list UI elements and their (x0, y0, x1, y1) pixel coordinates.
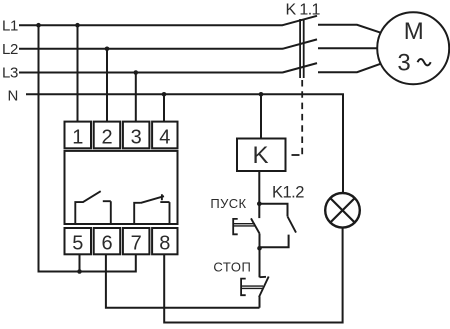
svg-text:6: 6 (101, 232, 112, 254)
coil K bottom wire (258, 171, 260, 218)
rail L3 (19, 72, 283, 74)
contact K1.2 branch (259, 204, 287, 217)
node N coil feed (259, 92, 264, 97)
wire L1 to left drop and terminals 5,7 (39, 25, 136, 271)
node L1 drop (36, 23, 41, 28)
terminal 3 (123, 122, 149, 149)
relay body (65, 151, 178, 224)
svg-text:2: 2 (101, 126, 112, 148)
wire terminal 5 (79, 255, 81, 272)
svg-text:1: 1 (72, 126, 83, 148)
rail L1 (19, 24, 283, 26)
rail L2 (19, 48, 283, 50)
contact K1.2 blade (288, 216, 297, 232)
svg-text:5: 5 (72, 232, 83, 254)
svg-text:8: 8 (159, 232, 170, 254)
terminal 8 (152, 228, 177, 254)
relay contact 5-6 (75, 191, 111, 224)
svg-text:M: M (404, 18, 424, 45)
wire N to terminal 4 (163, 94, 165, 122)
svg-text:N: N (8, 88, 19, 105)
svg-text:L2: L2 (2, 41, 18, 58)
start button SB1 cap (233, 219, 238, 234)
svg-text:3: 3 (397, 50, 410, 77)
svg-text:ПУСК: ПУСК (210, 196, 246, 211)
contactor contact K1.1 pole 1 (283, 16, 318, 25)
terminal 5 (65, 228, 92, 254)
wire L1 to terminal 1 (77, 25, 79, 122)
terminal 4 (152, 122, 177, 149)
terminal 1 (65, 122, 92, 149)
contact K1.2 lower wire (260, 235, 289, 248)
coil K box (237, 139, 286, 172)
node L3 terminal 3 (134, 70, 139, 75)
svg-text:3: 3 (131, 126, 142, 148)
K1.1 linkage bar (299, 19, 301, 78)
stop button SB2 fixed tick (260, 276, 267, 278)
svg-text:4: 4 (159, 126, 170, 148)
coil K feed wire from N (260, 94, 262, 138)
wire L2 to terminal 2 (106, 49, 108, 122)
wire terminal 8 to lamp (164, 228, 342, 323)
start button SB1 wire to node (259, 234, 261, 248)
start button SB1 blade (251, 218, 260, 234)
motor tilde (418, 59, 431, 65)
terminal 6 (94, 228, 121, 254)
svg-text:L3: L3 (2, 65, 18, 82)
terminal 7 (123, 228, 149, 254)
motor M circle (377, 12, 449, 84)
wire terminal 6 to STOP button (106, 255, 260, 308)
node N terminal 4 (162, 92, 167, 97)
start button SB1 rod (233, 224, 255, 226)
wire L3 to terminal 3 (135, 73, 137, 123)
stop button SB2 rod (241, 286, 263, 288)
stop button SB2 top wire (259, 248, 261, 277)
lamp HL circle (325, 193, 360, 228)
svg-text:K: K (252, 142, 268, 169)
stop button SB2 bottom wire (259, 297, 261, 308)
terminal 2 (94, 122, 121, 149)
node L2 terminal 2 (105, 47, 110, 52)
wire pole 1 to motor (318, 25, 380, 33)
stop button SB2 blade (259, 277, 269, 298)
rail N (26, 94, 343, 193)
svg-text:L1: L1 (2, 18, 18, 35)
node start bottom (257, 246, 262, 251)
stop button SB2 cap (241, 279, 246, 296)
node terminal 5 junction (77, 269, 82, 274)
svg-text:7: 7 (131, 232, 142, 254)
K1.1 to coil dashed mechanical link (301, 80, 303, 155)
svg-text:K1.2: K1.2 (272, 183, 304, 201)
node L1 terminal 1 (75, 23, 80, 28)
node start top (257, 201, 262, 206)
wire pole 2 to motor (318, 47, 378, 49)
svg-text:K 1.1: K 1.1 (286, 1, 321, 18)
wire pole 3 to motor (318, 64, 381, 72)
contactor contact K1.1 pole 3 (283, 63, 318, 72)
lamp HL cross (330, 198, 354, 222)
svg-text:СТОП: СТОП (213, 259, 251, 274)
relay contact 7-8 (134, 194, 169, 224)
contactor contact K1.1 pole 2 (283, 39, 318, 48)
